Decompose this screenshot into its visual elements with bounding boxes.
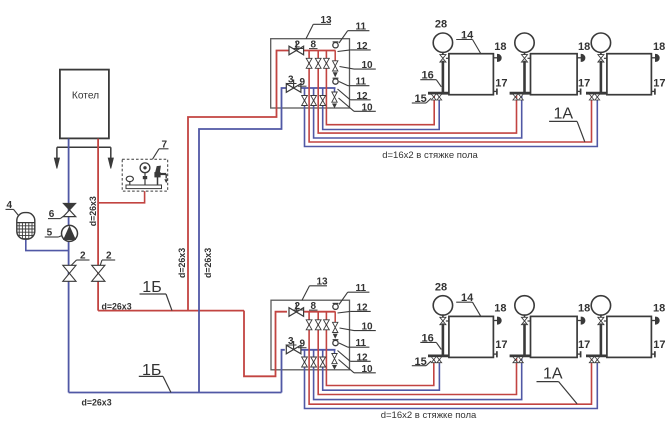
air vent 11 blue (upper)	[333, 79, 338, 84]
air vent 18 (bottom-2)	[577, 320, 581, 322]
svg-text:18: 18	[578, 302, 590, 314]
red supply horizontal pipe	[98, 310, 244, 312]
radiator pipe 16 vertical (top-2)	[523, 61, 526, 93]
air vent 18 (bottom-1)	[493, 320, 497, 322]
radiator foot connection (bottom-2)	[510, 354, 532, 357]
check valve 6	[63, 203, 75, 210]
loop pipe red to radiator 3 (upper)	[309, 51, 591, 143]
thermostatic head 28 (bottom-3)	[591, 296, 610, 315]
radiator pipe 16 vertical (bottom-1)	[442, 323, 445, 356]
svg-text:18: 18	[494, 41, 506, 53]
manifold cabinet box 13 (lower)	[271, 300, 350, 370]
svg-text:18: 18	[653, 302, 665, 314]
svg-text:17: 17	[653, 78, 665, 90]
air vent 18 (top-3)	[651, 57, 655, 59]
flow valve 9-3 (upper)	[320, 96, 326, 101]
manifold inlet valve 2 (lower)	[289, 308, 296, 317]
drain valve 10 red (upper)	[333, 61, 338, 66]
radiator foot connection (top-1)	[428, 92, 451, 95]
loop pipe blue from radiator 3 (upper)	[305, 88, 598, 147]
radiator body 14 (bottom-2)	[531, 316, 578, 357]
blue return pipe boiler to bottom	[68, 139, 70, 393]
pressure gauge	[140, 163, 150, 173]
radiator body 14 (bottom-3)	[607, 316, 652, 357]
svg-text:d=26х3: d=26х3	[88, 196, 98, 226]
loop pipe red to radiator 2 (lower)	[318, 312, 516, 395]
balancing valve 8-1 (lower)	[306, 320, 312, 325]
svg-text:Котел: Котел	[72, 90, 99, 101]
loop pipe blue from radiator 1 (lower)	[323, 350, 440, 390]
svg-text:d=26х3: d=26х3	[82, 397, 112, 407]
radiator foot connection (top-2)	[510, 92, 532, 95]
svg-text:17: 17	[578, 78, 590, 90]
drain valve 10 blue (lower)	[332, 354, 337, 359]
red supply pipe from boiler down	[97, 139, 99, 311]
svg-text:17: 17	[578, 339, 590, 351]
red manifold pipe (upper)	[304, 50, 336, 52]
drain valve 10 blue (upper)	[332, 92, 337, 97]
flow valve 9-2 (lower)	[311, 357, 317, 362]
blue return riser from upper manifold	[199, 88, 287, 393]
balancing valve 8-3 (lower)	[324, 320, 330, 325]
safety group box 7	[122, 159, 168, 191]
svg-text:d=26х3: d=26х3	[203, 248, 213, 278]
boiler body	[60, 70, 109, 139]
flow valve 9-1 (upper)	[302, 96, 308, 101]
plug 17 (bottom-2)	[577, 353, 581, 355]
radiator pipe 16 vertical (bottom-2)	[523, 323, 526, 356]
plug 17 (top-2)	[577, 90, 581, 92]
radiator foot connection (top-3)	[586, 92, 609, 95]
loop pipe blue from radiator 2 (lower)	[314, 350, 522, 400]
svg-text:17: 17	[495, 339, 507, 351]
radiator body 14 (top-1)	[449, 54, 494, 95]
expansion tank pipe	[26, 239, 69, 251]
radiator pipe 16 vertical (top-3)	[600, 61, 603, 93]
air vent 18 (top-2)	[577, 57, 581, 59]
svg-text:1А: 1А	[554, 105, 574, 122]
svg-text:d=26х3: d=26х3	[177, 248, 187, 278]
thermostatic valve (bottom-3)	[598, 317, 604, 321]
air vent 11 red (upper)	[333, 43, 338, 48]
svg-text:28: 28	[435, 19, 447, 31]
loop pipe blue from radiator 3 (lower)	[305, 350, 598, 409]
svg-text:d=16х2 в стяжке пола: d=16х2 в стяжке пола	[382, 150, 478, 161]
flow arrow right	[110, 147, 112, 160]
plug 17 (top-3)	[651, 90, 655, 92]
svg-text:d=26х3: d=26х3	[102, 302, 132, 312]
loop pipe red to radiator 1 (lower)	[326, 312, 433, 386]
radiator foot connection (bottom-3)	[586, 354, 609, 357]
blue return from lower manifold	[282, 350, 285, 393]
balancing valve 8-3 (upper)	[324, 58, 330, 63]
radiator foot connection (bottom-1)	[428, 354, 451, 357]
svg-text:18: 18	[578, 41, 590, 53]
plug 17 (bottom-3)	[651, 353, 655, 355]
connection valves 15 (bottom-2)	[513, 357, 518, 360]
thermostatic valve (bottom-1)	[440, 317, 446, 321]
thermostatic head 28 (bottom-2)	[515, 296, 534, 315]
loop pipe red to radiator 3 (lower)	[309, 312, 591, 405]
balancing valve 8-1 (upper)	[306, 58, 312, 63]
connection valves 15 (bottom-1)	[431, 357, 436, 360]
thermostatic valve (top-1)	[440, 55, 446, 59]
plug 17 (top-1)	[493, 90, 497, 92]
flow direction bracket under boiler	[57, 146, 111, 148]
air vent 11 red (lower)	[333, 304, 338, 309]
flow valve 9-3 (lower)	[320, 357, 326, 362]
plug 17 (bottom-1)	[493, 353, 497, 355]
blue drain stub (lower)	[334, 350, 336, 354]
safety relief valve	[157, 172, 159, 185]
manifold cabinet box 13 (upper)	[271, 39, 350, 108]
radiator body 14 (bottom-1)	[449, 316, 494, 357]
manifold return valve 3 (lower)	[286, 345, 293, 354]
flow arrow left	[56, 147, 58, 160]
shutoff valve 2 (supply line)	[92, 265, 105, 273]
red supply riser to upper manifold	[188, 51, 289, 311]
red drain stub (lower)	[334, 312, 336, 323]
radiator body 14 (top-2)	[531, 54, 578, 95]
air vent 18 (bottom-3)	[651, 320, 655, 322]
air vent 18 (top-1)	[493, 57, 497, 59]
pump 5	[62, 225, 78, 241]
blue return bottom horizontal pipe	[69, 392, 282, 394]
balancing valve 8-2 (lower)	[315, 320, 321, 325]
thermostatic valve (bottom-2)	[522, 317, 528, 321]
connection valves 15 (top-3)	[589, 94, 594, 97]
blue manifold pipe (lower)	[301, 349, 336, 351]
blue manifold pipe (upper)	[301, 87, 336, 89]
radiator pipe 16 vertical (bottom-3)	[600, 323, 603, 356]
drain valve 10 red (lower)	[333, 322, 338, 327]
air vent 11 blue (lower)	[333, 340, 338, 345]
thermometer gauge	[126, 176, 133, 181]
thermostatic head 28 (top-2)	[515, 33, 534, 52]
loop pipe blue from radiator 2 (upper)	[314, 88, 522, 138]
connection valves 15 (top-2)	[513, 94, 518, 97]
red manifold pipe (lower)	[304, 311, 336, 313]
radiator pipe 16 vertical (top-1)	[442, 61, 445, 93]
radiator body 14 (top-3)	[607, 54, 652, 95]
thermostatic valve (top-2)	[522, 55, 528, 59]
red branch to safety group	[98, 188, 145, 203]
red drain stub (upper)	[334, 51, 336, 61]
manifold inlet valve 2 (upper)	[289, 46, 296, 55]
connection valves 15 (bottom-3)	[589, 357, 594, 360]
loop pipe blue from radiator 1 (upper)	[323, 88, 440, 130]
flow valve 9-2 (upper)	[311, 96, 317, 101]
thermostatic valve (top-3)	[598, 55, 604, 59]
svg-text:1А: 1А	[543, 366, 563, 383]
thermostatic head 28 (top-1)	[433, 33, 452, 52]
svg-text:18: 18	[494, 302, 506, 314]
connection valves 15 (top-1)	[431, 94, 436, 97]
flow valve 9-1 (lower)	[302, 357, 308, 362]
loop pipe red to radiator 2 (upper)	[318, 51, 516, 134]
loop pipe red to radiator 1 (upper)	[326, 51, 434, 125]
thermostatic head 28 (top-3)	[591, 33, 610, 52]
shutoff valve 2 (return line)	[63, 265, 76, 273]
safety group base bar	[126, 185, 162, 189]
svg-text:18: 18	[653, 41, 665, 53]
balancing valve 8-2 (upper)	[315, 58, 321, 63]
thermostatic head 28 (bottom-1)	[433, 296, 452, 315]
svg-text:d=16х2 в стяжке пола: d=16х2 в стяжке пола	[381, 410, 477, 421]
svg-text:17: 17	[495, 78, 507, 90]
svg-text:17: 17	[653, 339, 665, 351]
manifold return valve 3 (upper)	[286, 84, 293, 93]
red supply drop to lower manifold	[244, 311, 287, 377]
blue drain stub (upper)	[334, 88, 336, 92]
svg-text:28: 28	[435, 281, 447, 293]
